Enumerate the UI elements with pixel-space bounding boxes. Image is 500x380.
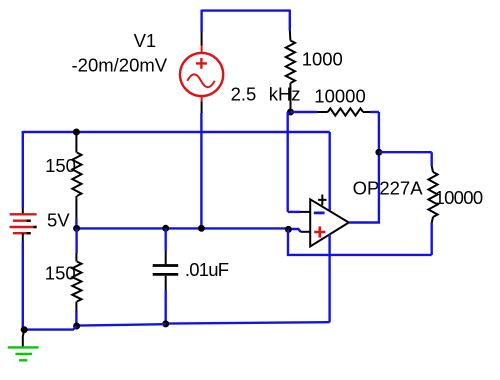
resistor R3 1000 — [286, 41, 295, 84]
node junction noninv/feedback — [285, 226, 292, 233]
svg-text:.01uF: .01uF — [185, 259, 229, 280]
node junction cap top — [162, 225, 169, 232]
wire R4 right down to output node — [378, 112, 380, 152]
resistor R1 150 top — [75, 132, 77, 153]
node junction R2 bottom — [73, 323, 80, 330]
wire feedback bottom to noninverting node — [288, 229, 432, 255]
node junction R3/R4/inverting — [287, 109, 294, 116]
wire top from V1 to R3 — [202, 9, 290, 11]
svg-text:150: 150 — [45, 155, 76, 176]
op-amp U1 OP227A — [310, 195, 349, 247]
svg-text:1000: 1000 — [302, 48, 343, 69]
node junction output/feedback — [375, 149, 382, 156]
wire bottom middle segment — [77, 324, 166, 325]
node junction R1/R2/noninv — [73, 225, 80, 232]
wire noninverting rail y=228.4 — [77, 227, 289, 229]
wire supply rail y=132 — [23, 131, 330, 133]
wire output node to R5 top — [379, 151, 432, 153]
wire battery to ground — [22, 241, 24, 330]
node junction rail/R1 — [73, 129, 80, 136]
op-amp inverting input stub — [300, 211, 310, 213]
wire op-amp V+ pin — [329, 132, 331, 211]
svg-text:-20m/20mV: -20m/20mV — [72, 55, 168, 76]
svg-text:2.5: 2.5 — [231, 84, 257, 105]
op-amp noninverting input stub — [301, 231, 311, 233]
capacitor C1 .01uF — [153, 228, 179, 324]
svg-text:kHz: kHz — [269, 84, 301, 105]
svg-text:V1: V1 — [134, 30, 157, 51]
wire R3 top lead — [289, 10, 291, 30]
svg-text:5V: 5V — [47, 210, 70, 231]
wire V1 bottom lead — [201, 102, 203, 114]
wire inverting input vertical — [287, 112, 289, 212]
ground symbol — [8, 330, 39, 360]
voltage source V1 — [180, 46, 223, 102]
resistor R4 10000 feedback — [291, 111, 318, 113]
wire output to feedback node — [349, 152, 379, 222]
svg-text:OP227A: OP227A — [353, 178, 424, 199]
node junction V1 bottom — [198, 225, 205, 232]
node junction ground — [21, 326, 28, 333]
svg-text:150: 150 — [45, 262, 76, 283]
battery 5V — [10, 208, 37, 242]
svg-text:10000: 10000 — [314, 86, 365, 107]
resistor R5 10000 right — [431, 152, 433, 166]
node junction cap bottom — [162, 320, 169, 327]
wire left battery vertical — [22, 131, 24, 208]
wire V1 top lead — [200, 10, 202, 32]
wire bottom right segment — [166, 322, 330, 323]
wire op-amp V- pin down — [328, 234, 330, 322]
svg-text:10000: 10000 — [435, 187, 483, 208]
resistor R2 150 bottom — [75, 228, 77, 253]
wire bottom left segment — [24, 326, 76, 329]
